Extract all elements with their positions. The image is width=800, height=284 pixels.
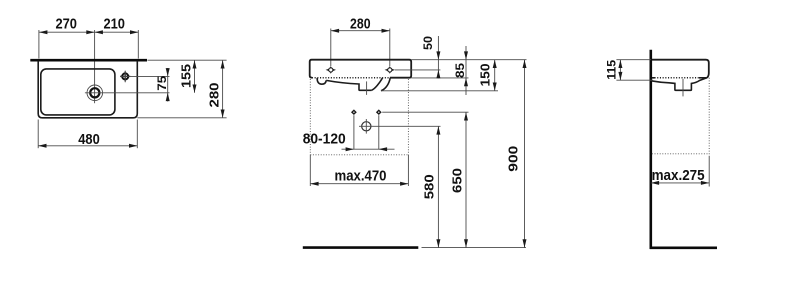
svg-text:210: 210 [103, 16, 125, 33]
svg-text:280: 280 [208, 82, 222, 107]
svg-text:150: 150 [479, 63, 493, 86]
svg-text:280: 280 [350, 15, 371, 32]
svg-text:115: 115 [607, 59, 619, 80]
svg-text:85: 85 [453, 63, 467, 78]
svg-text:75: 75 [155, 75, 169, 90]
svg-text:650: 650 [450, 168, 464, 193]
svg-text:270: 270 [55, 16, 77, 33]
svg-text:80-120: 80-120 [303, 130, 346, 147]
svg-text:480: 480 [78, 131, 100, 148]
svg-text:50: 50 [421, 36, 435, 50]
svg-text:max.275: max.275 [652, 167, 705, 184]
svg-text:max.470: max.470 [335, 167, 387, 184]
svg-text:900: 900 [507, 146, 521, 172]
svg-text:580: 580 [422, 174, 436, 199]
svg-text:155: 155 [179, 64, 193, 88]
